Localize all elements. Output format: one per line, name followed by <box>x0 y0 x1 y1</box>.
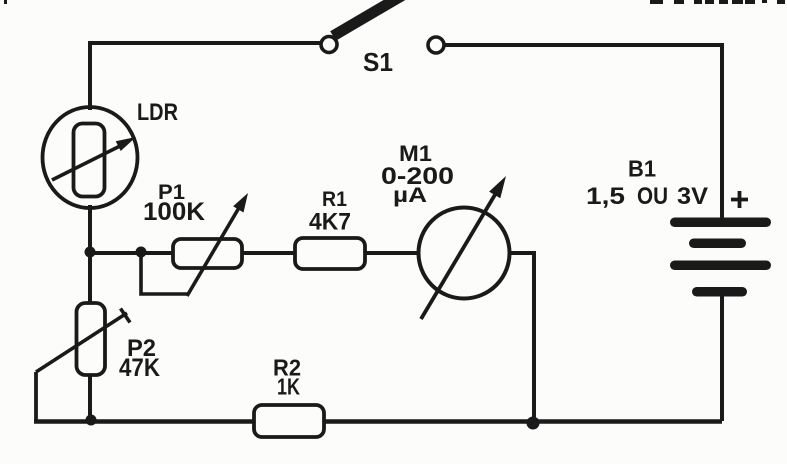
battery plus sign <box>731 198 748 202</box>
potentiometer P1 <box>141 181 248 296</box>
battery B1 <box>586 156 771 422</box>
node C junction dot (M1 branch on bottom rail) <box>527 417 540 430</box>
wire LDR bottom to node A <box>88 205 92 254</box>
wire P2 wiper drop to bottom rail <box>34 372 38 421</box>
svg-text:4K7: 4K7 <box>309 209 351 236</box>
wire P1 to R1 <box>242 251 297 255</box>
wire P2 top terminal <box>88 252 92 305</box>
svg-text:B1: B1 <box>628 156 656 182</box>
wire bottom rail <box>34 419 722 424</box>
P1 wiper arrow <box>187 206 240 296</box>
cropped caption text remnants at top edge <box>4 0 785 4</box>
svg-text:S1: S1 <box>363 47 393 77</box>
svg-text:1K: 1K <box>277 374 300 400</box>
node B junction dot (P1 wiper tie) <box>136 247 147 258</box>
wire top rail right segment (S1 to battery positive) <box>444 45 722 219</box>
svg-text:OU: OU <box>637 183 668 210</box>
svg-text:µA: µA <box>393 184 427 207</box>
node D junction dot (P2 bottom on bottom rail) <box>86 415 97 426</box>
meter M1 <box>381 141 510 319</box>
resistor R2 <box>254 355 324 438</box>
LDR photoresistor <box>43 99 179 208</box>
wire node A to P1 left terminal <box>90 251 175 255</box>
wire P1 wiper loop to node B <box>141 252 188 294</box>
resistor R1 <box>295 188 365 269</box>
wire R1 to M1 <box>365 251 420 255</box>
wire left vertical (top rail to LDR) <box>88 41 92 110</box>
svg-text:1,5: 1,5 <box>586 183 625 210</box>
wire top rail left segment (LDR top to S1) <box>90 41 322 45</box>
svg-text:LDR: LDR <box>137 99 178 126</box>
potentiometer P2 <box>36 303 160 421</box>
wire M1 right terminal down to bottom rail <box>509 253 534 421</box>
svg-text:3V: 3V <box>677 183 708 210</box>
svg-text:47K: 47K <box>119 354 160 382</box>
switch S1 <box>321 0 444 77</box>
svg-text:100K: 100K <box>143 198 205 226</box>
wire battery negative to bottom rail <box>720 296 724 421</box>
node A junction dot (LDR / P1 / P2) <box>85 247 96 258</box>
P2 wiper arm <box>36 313 127 372</box>
M1 needle arrow <box>421 193 496 319</box>
wire P2 bottom terminal <box>88 373 92 421</box>
